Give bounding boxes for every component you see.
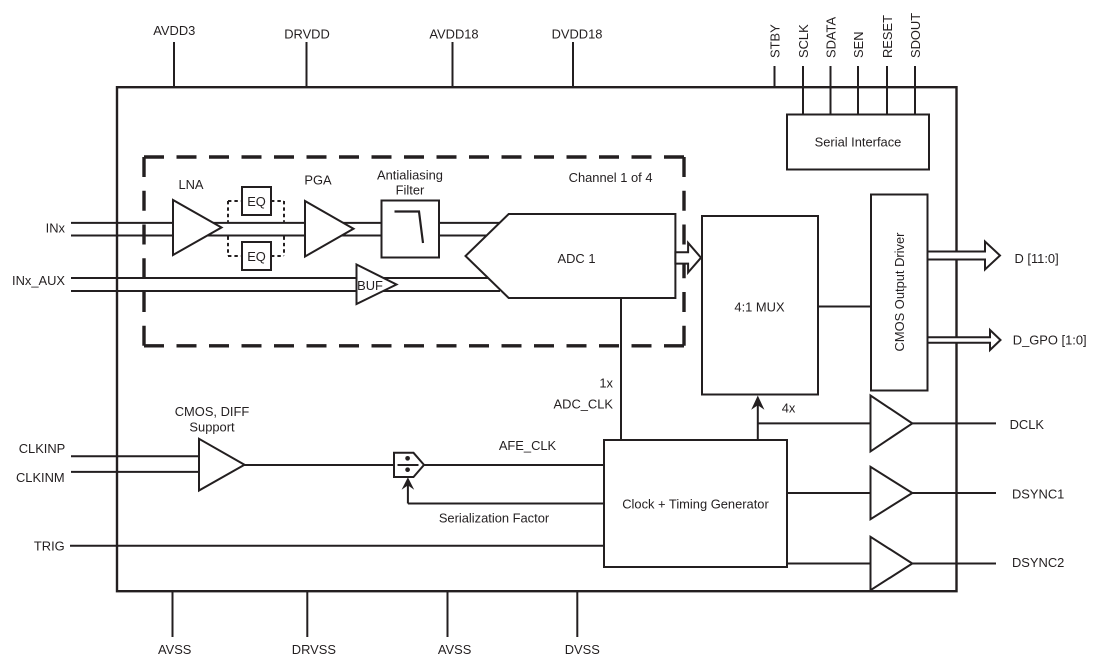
svg-text:SDOUT: SDOUT (908, 13, 923, 58)
svg-text:DVSS: DVSS (565, 642, 600, 657)
svg-text:4x: 4x (782, 401, 796, 416)
svg-text:DRVDD: DRVDD (284, 27, 330, 42)
svg-text:Serialization Factor: Serialization Factor (439, 511, 550, 526)
svg-text:CLKINM: CLKINM (16, 470, 65, 485)
svg-text:DVDD18: DVDD18 (552, 27, 603, 42)
svg-text:LNA: LNA (178, 177, 203, 192)
svg-text:Clock + Timing Generator: Clock + Timing Generator (622, 497, 769, 512)
svg-text:DSYNC1: DSYNC1 (1012, 486, 1064, 501)
svg-text:DRVSS: DRVSS (292, 642, 336, 657)
svg-text:Filter: Filter (396, 183, 425, 198)
svg-text:CMOS, DIFF: CMOS, DIFF (175, 404, 250, 419)
svg-text:EQ: EQ (247, 194, 266, 209)
svg-text:ADC_CLK: ADC_CLK (554, 397, 614, 412)
svg-text:STBY: STBY (768, 24, 783, 58)
svg-text:Support: Support (189, 419, 235, 434)
svg-text:DCLK: DCLK (1010, 417, 1045, 432)
svg-text:AVSS: AVSS (438, 642, 471, 657)
svg-text:CLKINP: CLKINP (19, 441, 66, 456)
svg-text:AVDD3: AVDD3 (153, 23, 195, 38)
svg-text:Channel 1 of 4: Channel 1 of 4 (569, 170, 653, 185)
svg-text:1x: 1x (599, 375, 613, 390)
svg-text:SDATA: SDATA (824, 17, 839, 58)
svg-text:TRIG: TRIG (34, 538, 65, 553)
svg-text:ADC 1: ADC 1 (558, 251, 596, 266)
svg-text:EQ: EQ (247, 249, 266, 264)
svg-text:AVDD18: AVDD18 (429, 27, 478, 42)
svg-text:Serial Interface: Serial Interface (815, 135, 902, 150)
svg-text:SEN: SEN (851, 31, 866, 58)
svg-text:4:1 MUX: 4:1 MUX (734, 299, 785, 314)
svg-text:SCLK: SCLK (796, 24, 811, 58)
svg-text:BUF: BUF (357, 278, 383, 293)
svg-text:DSYNC2: DSYNC2 (1012, 555, 1064, 570)
svg-text:AVSS: AVSS (158, 642, 191, 657)
svg-text:PGA: PGA (304, 172, 332, 187)
svg-text:INx_AUX: INx_AUX (12, 273, 65, 288)
svg-text:RESET: RESET (880, 15, 895, 58)
svg-text:D [11:0]: D [11:0] (1015, 251, 1059, 266)
svg-text:INx: INx (46, 220, 66, 235)
svg-text:D_GPO [1:0]: D_GPO [1:0] (1013, 333, 1087, 348)
svg-text:CMOS Output Driver: CMOS Output Driver (892, 232, 907, 352)
svg-text:AFE_CLK: AFE_CLK (499, 438, 557, 453)
svg-text:Antialiasing: Antialiasing (377, 167, 443, 182)
